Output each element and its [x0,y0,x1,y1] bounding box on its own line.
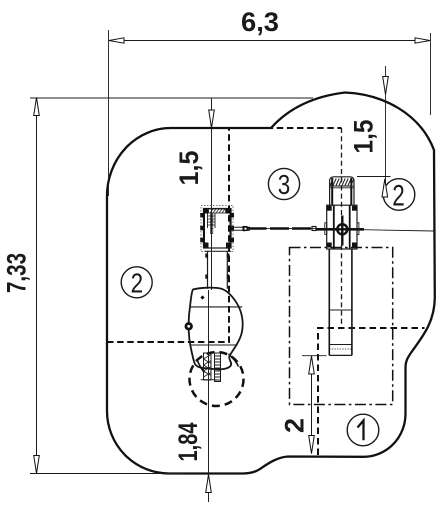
thick crosshair bar [316,228,364,231]
thin cable line [247,227,316,229]
svg-text:1,84: 1,84 [173,423,203,462]
svg-text:7,33: 7,33 [2,253,32,293]
arrowhead up [34,98,40,116]
top hatched bar [209,209,226,213]
bottom bar [204,247,232,249]
dashed impact circle [190,352,244,406]
node: dash-dot zone rectangle 1 [290,248,393,405]
wire: dimension/center line [211,98,213,290]
corner posts [327,206,332,211]
wire: extension line y=355.7 [302,355,327,357]
wire: extension line top y=97.5 [30,97,313,99]
solid frame [204,209,232,249]
rails [331,178,333,205]
arrowhead left [109,38,124,43]
dotted outer rect [201,206,233,252]
wire: dashed centerline of slide [341,128,343,215]
wire: dimension line [311,356,313,454]
small dot [200,295,204,299]
svg-text:1,5: 1,5 [174,151,204,186]
playhouse blob [185,288,243,370]
crosshair node [336,223,348,235]
wire: extension line bottom y=473.5 [30,473,186,475]
label circle 1 [347,414,379,446]
beam from platform [231,226,250,228]
wire: dimension line [109,40,430,42]
wire: extension line right x=430 [430,33,432,115]
inner rails [333,205,335,249]
top hatch [330,185,354,187]
dimension 1,5 right [349,66,391,197]
wire: dimension line [36,98,38,474]
svg-text:2: 2 [392,180,405,213]
chute [328,249,330,355]
crosshair vertical bar [341,216,343,246]
wire: dimension line [385,66,387,196]
eye donut [185,322,193,330]
dimension 6,3 top [109,7,431,196]
thin line to right edge [364,230,434,231]
svg-text:6,3: 6,3 [241,7,279,37]
platform U1 (left tower) [200,206,234,252]
wire: extension line left x=108.5 [108,30,110,196]
zipline cable assembly [231,226,434,232]
safety zone outline [107,93,435,474]
dimension 2 bottom-right [280,356,327,454]
corner post squares [204,209,209,214]
arrowhead up [309,356,315,374]
svg-text:2: 2 [280,418,310,433]
arrowhead down at outline [209,110,215,128]
arrowhead up tip at extension [382,179,388,197]
channel below platform [205,252,229,289]
mid box [327,205,357,249]
side tabs [325,223,327,235]
node square left [243,227,247,231]
seat posts inside circle [197,353,239,382]
label circle 2 right [383,179,415,213]
side ticks [200,213,203,218]
dimension 1,5 left-center [174,98,214,502]
dimension 1,84 bottom [173,423,211,493]
ladder [207,214,209,229]
svg-text:2: 2 [131,268,144,299]
dashed thick overlay [247,227,311,230]
wire: extension line y=176.5 [357,176,391,178]
arrowhead right [415,38,430,43]
arrowhead up tip at outline bottom [206,475,212,493]
arrowhead down [34,456,40,474]
upper box [330,177,354,205]
node square right [312,227,316,231]
slide tower U2 [325,177,359,356]
label circle 2 left [121,267,152,299]
svg-text:1,5: 1,5 [349,120,379,154]
arrowhead down [309,436,315,454]
arrowhead down tip at outline top [383,77,389,95]
dimension 7,33 left [2,98,314,474]
label circle 3 [268,168,299,200]
wire: dashed envelope polyline right (net B) [318,328,425,455]
small hatched stick [211,214,213,234]
svg-text:3: 3 [278,169,291,200]
wire: dashed envelope polyline left (net A) [107,128,342,342]
